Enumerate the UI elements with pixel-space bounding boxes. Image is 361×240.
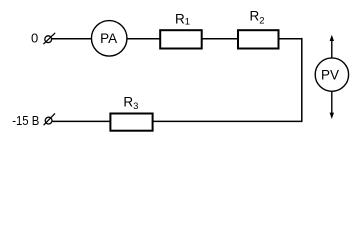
- wire: terminal 0 to PA: [52, 38, 92, 40]
- PV top arrow (points up): [330, 35, 334, 58]
- svg-text:R2: R2: [250, 9, 265, 27]
- svg-text:R3: R3: [123, 95, 138, 112]
- wire: R1 to R2: [202, 38, 238, 40]
- wire: right vertical (top rail to bottom rail): [301, 38, 303, 122]
- wire: terminal -15V to R3: [53, 120, 112, 122]
- ammeter PA: [91, 21, 127, 57]
- svg-text:PV: PV: [321, 67, 339, 82]
- resistor R2: [238, 30, 279, 48]
- terminal (input 0): [43, 33, 55, 44]
- wire: R2 to top-right corner: [280, 38, 303, 40]
- wire: R3 to bottom-right corner: [153, 120, 302, 122]
- svg-text:0: 0: [31, 31, 38, 46]
- svg-text:-15 В: -15 В: [12, 113, 39, 128]
- resistor R1: [160, 30, 202, 48]
- PV bottom arrow (points down): [330, 91, 334, 119]
- svg-text:PA: PA: [100, 31, 117, 46]
- svg-text:R1: R1: [175, 11, 190, 27]
- wire: PA to R1: [127, 38, 160, 40]
- terminal (input -15V): [44, 113, 55, 125]
- voltmeter PV: [315, 58, 348, 91]
- resistor R3: [110, 114, 152, 131]
